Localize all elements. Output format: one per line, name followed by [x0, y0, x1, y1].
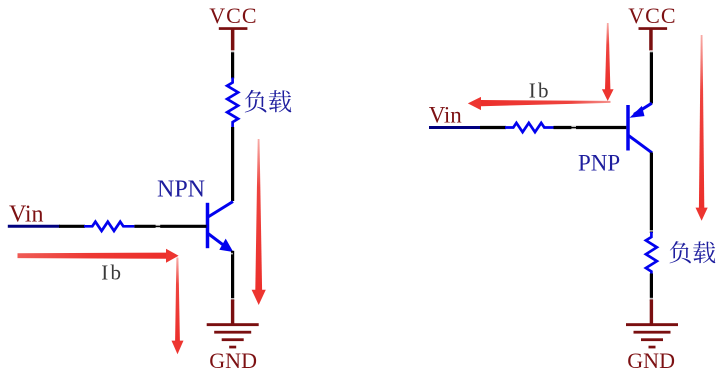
- junction on VCC stem (left): [230, 50, 234, 52]
- resistor load (right): [646, 232, 657, 274]
- current arrow Ib vertical (right): [605, 23, 610, 90]
- junction above ground (right): [649, 298, 653, 300]
- junction above ground (left): [231, 298, 235, 300]
- wire: load resistor to collector (left): [231, 127, 234, 201]
- wire: Vin net segment navy (right): [429, 126, 481, 129]
- power VCC (left): [209, 3, 257, 51]
- wire: base resistor to base (right): [554, 126, 627, 129]
- power VCC (right): [628, 3, 676, 51]
- current arrow collector-load (right): [699, 35, 704, 208]
- wire: load resistor to ground (right): [650, 274, 653, 301]
- wire: navy to base resistor (left): [59, 225, 85, 228]
- resistor base (right): [505, 123, 554, 132]
- junction on base wire (left): [156, 225, 161, 229]
- ground symbol (left): [207, 300, 259, 349]
- svg-text:GND: GND: [627, 348, 675, 373]
- wire: navy to base resistor (right): [480, 126, 506, 129]
- wire: VCC stem to emitter (right): [650, 51, 653, 104]
- value label 负载 (right): [670, 241, 716, 263]
- svg-text:Vin: Vin: [9, 202, 44, 228]
- svg-text:VCC: VCC: [209, 3, 257, 28]
- current arrow collector-load (left): [255, 139, 262, 290]
- wire: VCC stem to load resistor (left): [231, 51, 234, 79]
- junction on base wire (right): [571, 126, 576, 130]
- wire: emitter to ground (left): [231, 251, 234, 301]
- svg-text:PNP: PNP: [578, 151, 620, 176]
- current arrow Ib horizontal (left): [18, 253, 167, 259]
- svg-text:VCC: VCC: [628, 3, 676, 28]
- transistor Q2 PNP: [628, 103, 652, 153]
- svg-text:Ib: Ib: [101, 261, 123, 285]
- ground symbol (right): [626, 300, 678, 349]
- resistor load (left): [227, 78, 238, 128]
- svg-text:GND: GND: [209, 348, 257, 373]
- transistor Q1 NPN: [208, 202, 234, 253]
- svg-text:Vin: Vin: [429, 102, 463, 127]
- current arrow Ib horizontal (right): [481, 100, 611, 106]
- svg-text:NPN: NPN: [157, 176, 205, 202]
- current arrow Ib vertical drop (left): [175, 258, 180, 342]
- wire: Vin net segment navy (left): [8, 225, 60, 228]
- value label 负载 (left): [245, 90, 291, 113]
- junction above load resistor (right): [649, 230, 653, 232]
- resistor base (left): [84, 222, 134, 231]
- wire: collector to load resistor (right): [650, 153, 653, 234]
- junction at emitter wire (left): [231, 253, 233, 255]
- wire: base resistor to base (left): [134, 225, 206, 228]
- svg-text:Ib: Ib: [529, 78, 551, 102]
- junction on VCC stem (right): [649, 50, 653, 52]
